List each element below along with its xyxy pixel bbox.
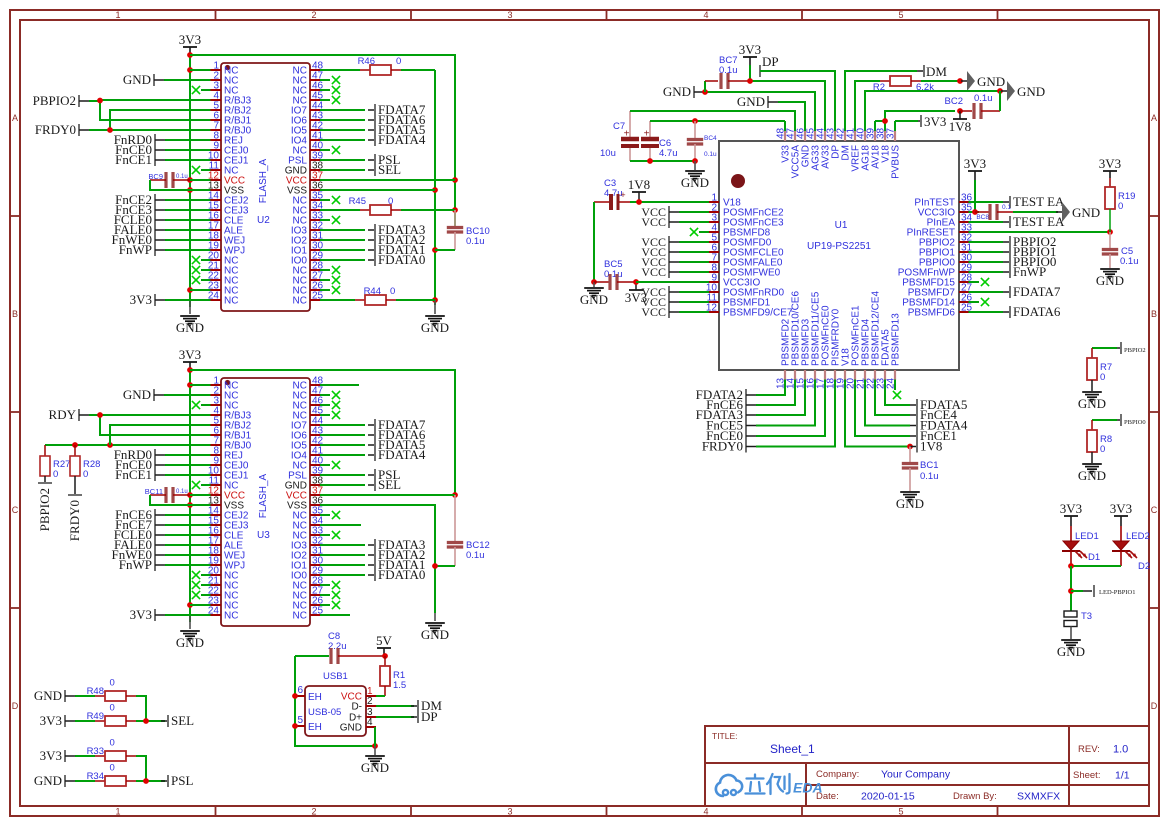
net label SEL at U2 pin38 bbox=[330, 162, 401, 177]
wire U3 pin36 VSS to ground bbox=[330, 505, 438, 613]
net label DP to U1 pin43 bbox=[760, 54, 835, 121]
svg-text:FRDY0: FRDY0 bbox=[35, 122, 76, 137]
svg-text:UP19-PS2251: UP19-PS2251 bbox=[807, 241, 871, 252]
svg-text:25: 25 bbox=[312, 291, 324, 302]
net label GND to U1 pin45 bbox=[663, 84, 815, 121]
svg-text:VCC: VCC bbox=[641, 215, 666, 229]
wire BC5 to U1 pin9 VCC3IO bbox=[636, 281, 699, 283]
svg-text:R45: R45 bbox=[349, 196, 366, 207]
svg-text:FnWP: FnWP bbox=[119, 557, 152, 572]
net label PBPIO2 at R7 bbox=[1092, 342, 1146, 354]
power 3V3 above BC7 bbox=[739, 42, 761, 81]
svg-text:0: 0 bbox=[396, 56, 401, 67]
net label PBPIO2 to U2 pins 4,6 bbox=[33, 93, 201, 120]
svg-text:GND: GND bbox=[34, 773, 62, 788]
wire 3V3 rail to U2 pin1 bbox=[190, 69, 201, 71]
net label FnWP to U3 pin19 bbox=[119, 557, 201, 572]
net label FDATA0 at U2 low byte bbox=[330, 252, 425, 267]
net label FnCE0 to U2 pin9 bbox=[115, 142, 201, 157]
wire U2 pin36 VSS to GND rail bbox=[330, 189, 435, 191]
svg-text:0.1: 0.1 bbox=[1002, 204, 1011, 211]
svg-text:U2: U2 bbox=[257, 215, 270, 226]
svg-text:D1: D1 bbox=[1088, 552, 1100, 563]
U1 no-connect X marks bbox=[690, 228, 989, 399]
ground below BC1 bbox=[896, 492, 924, 511]
net label FDATA1 at U3 low byte bbox=[330, 557, 425, 572]
svg-text:37: 37 bbox=[886, 127, 897, 139]
svg-text:GND: GND bbox=[737, 94, 765, 109]
net label PSL at U3 pin39 bbox=[330, 467, 400, 482]
svg-text:LED1: LED1 bbox=[1075, 531, 1099, 542]
svg-text:PBPIO0: PBPIO0 bbox=[1124, 419, 1146, 426]
svg-text:0.1u: 0.1u bbox=[176, 489, 188, 495]
ground arrow at pin40 net bbox=[1001, 81, 1045, 101]
svg-text:B: B bbox=[12, 309, 18, 319]
usb connector USB1 USB-05 body bbox=[305, 671, 366, 736]
capacitor BC11 0.1u at U3 VCC/VSS bbox=[145, 487, 201, 505]
svg-text:+: + bbox=[620, 190, 625, 200]
svg-text:FnWP: FnWP bbox=[119, 242, 152, 257]
net label RDY to U3 pins 4,6 bbox=[49, 407, 201, 435]
svg-text:1: 1 bbox=[115, 10, 120, 20]
svg-text:PBPIO2: PBPIO2 bbox=[33, 93, 76, 108]
wire U1 pin40 AG18 to ground arrow bbox=[865, 88, 1003, 121]
svg-text:LED-PBPIO1: LED-PBPIO1 bbox=[1099, 589, 1135, 596]
net label FDATA2 at U3 low byte bbox=[330, 547, 425, 562]
net label TEST EA at U1 pin36 bbox=[979, 194, 1065, 209]
net label GND to U1 pin46 bbox=[737, 94, 805, 121]
svg-text:NC: NC bbox=[224, 296, 238, 307]
resistor R19 0 bbox=[1105, 178, 1135, 232]
net label FDATA7 at U2 bbox=[330, 102, 426, 117]
net label FnCE0 to U3 pin9 bbox=[115, 457, 201, 472]
svg-text:0: 0 bbox=[1100, 372, 1105, 383]
svg-text:VCC: VCC bbox=[641, 305, 666, 319]
net label 3V3 at R49 bbox=[40, 713, 95, 728]
ground arrow at R2 bbox=[961, 71, 1005, 91]
svg-text:25: 25 bbox=[961, 303, 973, 314]
svg-text:4: 4 bbox=[703, 10, 708, 20]
net label SEL output bbox=[161, 713, 194, 728]
svg-text:4: 4 bbox=[367, 717, 373, 728]
svg-text:BC8: BC8 bbox=[976, 214, 989, 221]
svg-text:24: 24 bbox=[208, 291, 220, 302]
capacitor C6 4.7u bbox=[641, 121, 678, 161]
U2 right pins 25-48 bbox=[285, 61, 330, 307]
svg-text:1.5: 1.5 bbox=[393, 680, 406, 691]
svg-text:U1: U1 bbox=[835, 220, 848, 231]
svg-text:TEST EA: TEST EA bbox=[1013, 214, 1065, 229]
svg-text:3V3: 3V3 bbox=[179, 347, 201, 362]
svg-text:3V3: 3V3 bbox=[964, 156, 986, 171]
ground under BC4 bbox=[681, 161, 709, 190]
svg-text:GND: GND bbox=[340, 723, 362, 734]
svg-text:24: 24 bbox=[208, 606, 220, 617]
svg-text:D: D bbox=[1151, 701, 1158, 711]
net label FDATA0 at U3 low byte bbox=[330, 567, 425, 582]
net label PBPIO1 at U1 pin31 bbox=[979, 244, 1056, 259]
net label FRDY0 to U1 bottom pin bbox=[702, 390, 835, 454]
net label VCC to U1 pin8 bbox=[641, 265, 699, 279]
resistor R7 0 bbox=[1087, 348, 1112, 391]
net label GND to U2 pin2 bbox=[123, 72, 201, 87]
net label FDATA6 at U1 pin25 bbox=[979, 304, 1061, 319]
svg-text:PBPIO2: PBPIO2 bbox=[37, 488, 52, 531]
svg-text:C: C bbox=[12, 505, 19, 515]
capacitor BC8 0.1u at U1 pin35 bbox=[975, 204, 1058, 221]
svg-text:GND: GND bbox=[176, 635, 204, 650]
power 5V above R1 bbox=[376, 633, 393, 659]
svg-text:T3: T3 bbox=[1081, 611, 1092, 622]
svg-text:10u: 10u bbox=[600, 148, 616, 159]
svg-text:U3: U3 bbox=[257, 530, 270, 541]
flash chip U2 body bbox=[221, 63, 310, 311]
svg-text:Your Company: Your Company bbox=[881, 769, 951, 781]
net label FALE0 to U3 pin17 bbox=[114, 537, 201, 552]
ground right of U2 bbox=[421, 300, 449, 335]
svg-text:PVBUS: PVBUS bbox=[891, 145, 902, 179]
svg-text:5V: 5V bbox=[376, 633, 393, 648]
svg-text:VCC: VCC bbox=[641, 265, 666, 279]
svg-text:REV:: REV: bbox=[1078, 744, 1100, 755]
svg-text:DM: DM bbox=[926, 64, 947, 79]
net label FRDY0 to U2 pins 5,7 bbox=[35, 110, 201, 137]
net label FnCE6 to U1 bottom pin bbox=[706, 390, 795, 412]
svg-text:R46: R46 bbox=[358, 56, 375, 67]
svg-text:1: 1 bbox=[115, 807, 120, 817]
svg-text:5: 5 bbox=[898, 10, 903, 20]
U2 left pins 1-24 bbox=[201, 61, 252, 307]
net label DM at USB1 pin2 bbox=[376, 698, 442, 713]
net label FDATA4 at U3 bbox=[330, 447, 426, 462]
net label 3V3 to U3 pin24 bbox=[130, 607, 201, 622]
svg-text:1V8: 1V8 bbox=[920, 439, 942, 454]
capacitor C8 2.2u bbox=[295, 631, 385, 664]
svg-text:FLASH_A: FLASH_A bbox=[258, 473, 269, 518]
svg-text:+: + bbox=[644, 129, 650, 140]
svg-text:GND: GND bbox=[1078, 396, 1106, 411]
net label FnCE1 at U1 bottom right bbox=[855, 390, 957, 443]
net label FnWP at U1 pin29 bbox=[979, 264, 1046, 279]
power 3V3 at U1 pin35 bbox=[964, 156, 986, 215]
net label PBPIO2 at U1 pin32 bbox=[979, 234, 1056, 249]
net label FnWE0 to U2 pin18 bbox=[112, 232, 201, 247]
net label FDATA7 at U1 pin27 bbox=[979, 284, 1061, 299]
resistor R34 0 bbox=[87, 763, 165, 787]
svg-text:GND: GND bbox=[123, 72, 151, 87]
svg-text:FDATA6: FDATA6 bbox=[1013, 304, 1061, 319]
net label FnCE1 to U2 pin10 bbox=[115, 152, 201, 167]
svg-text:GND: GND bbox=[1078, 468, 1106, 483]
svg-text:TITLE:: TITLE: bbox=[712, 731, 738, 741]
svg-text:12: 12 bbox=[706, 303, 718, 314]
net label GND at R48 bbox=[34, 688, 95, 703]
net label VCC to U1 pin5 bbox=[641, 235, 699, 249]
svg-text:GND: GND bbox=[1096, 273, 1124, 288]
net label FDATA4 at U1 bottom right bbox=[865, 390, 968, 433]
svg-text:PSL: PSL bbox=[171, 773, 193, 788]
wire U3 pin25 stub bbox=[330, 614, 350, 616]
LED D2 LED2 with 3V3 bbox=[1110, 501, 1150, 572]
wire 3V3 top rail over U3 bbox=[190, 370, 458, 498]
resistor R46 0 at U2 pin48 bbox=[330, 56, 435, 75]
wire 3V3 to U1 pin44 AV33 bbox=[747, 78, 825, 121]
U1 top pins 48-37 bbox=[776, 121, 902, 179]
resistor R27 0 to PBPIO2 flag bbox=[37, 445, 70, 531]
svg-text:3V3: 3V3 bbox=[130, 607, 152, 622]
ground below C5 bbox=[1096, 269, 1124, 288]
svg-text:GND: GND bbox=[123, 387, 151, 402]
wire rail to U2 pin23 bbox=[190, 289, 201, 291]
net label FnRD0 to U3 pin8 bbox=[114, 447, 201, 462]
svg-text:PBPIO2: PBPIO2 bbox=[1124, 347, 1146, 354]
svg-text:D2: D2 bbox=[1138, 561, 1150, 572]
USB1 left pins 6,5 EH bbox=[293, 685, 322, 733]
svg-text:3: 3 bbox=[507, 10, 512, 20]
svg-text:6: 6 bbox=[297, 685, 303, 696]
svg-text:3V3: 3V3 bbox=[40, 748, 62, 763]
svg-text:4: 4 bbox=[703, 807, 708, 817]
capacitor BC1 0.1u bbox=[902, 447, 939, 492]
svg-text:GND: GND bbox=[1057, 644, 1085, 659]
svg-text:SEL: SEL bbox=[378, 162, 401, 177]
svg-text:GND: GND bbox=[896, 496, 924, 511]
svg-text:FDATA4: FDATA4 bbox=[378, 447, 426, 462]
net label FDATA6 at U2 bbox=[330, 112, 426, 127]
svg-text:5: 5 bbox=[297, 715, 303, 726]
svg-text:FRDY0: FRDY0 bbox=[67, 500, 82, 541]
svg-text:LED2: LED2 bbox=[1126, 531, 1150, 542]
svg-text:FDATA4: FDATA4 bbox=[378, 132, 426, 147]
svg-text:FnWP: FnWP bbox=[1013, 264, 1046, 279]
net label FDATA2 at U2 low byte bbox=[330, 232, 425, 247]
wire 3V3 rail left of U3 bbox=[187, 367, 193, 622]
svg-text:FDATA0: FDATA0 bbox=[378, 567, 425, 582]
power flag 1V8 below BC2 wire bbox=[949, 111, 971, 134]
svg-text:1.0: 1.0 bbox=[1113, 744, 1128, 756]
net label FnCE6 to U3 pin14 bbox=[115, 507, 201, 522]
wire U1 pin1 V18 to C3 bbox=[630, 199, 699, 205]
net label FDATA3 at U3 low byte bbox=[330, 537, 425, 552]
net label SEL at U3 pin38 bbox=[330, 477, 401, 492]
svg-text:D: D bbox=[12, 701, 19, 711]
net label 3V3 to U1 pin37 PVBUS bbox=[895, 114, 946, 129]
svg-text:3V3: 3V3 bbox=[1099, 156, 1121, 171]
ground arrow at BC8 bbox=[1056, 202, 1100, 222]
svg-text:0.1u: 0.1u bbox=[704, 151, 717, 158]
svg-text:0: 0 bbox=[1100, 444, 1105, 455]
svg-text:0: 0 bbox=[388, 196, 393, 207]
svg-text:A: A bbox=[1151, 113, 1157, 123]
U1 left pins 1-12 bbox=[699, 193, 793, 319]
resistor R1 1.5 bbox=[375, 656, 406, 696]
svg-text:GND: GND bbox=[34, 688, 62, 703]
svg-text:SEL: SEL bbox=[378, 477, 401, 492]
net label FnCE5 to U1 bottom pin bbox=[706, 390, 815, 433]
net label FDATA3 to U1 bottom pin bbox=[696, 390, 805, 422]
svg-text:4.7u: 4.7u bbox=[659, 148, 678, 159]
power 3V3 below BC5 bbox=[625, 279, 647, 305]
wire USB1 pin4 to ground bbox=[374, 727, 376, 746]
svg-text:FnCE1: FnCE1 bbox=[115, 152, 152, 167]
svg-text:2: 2 bbox=[311, 807, 316, 817]
net label FDATA3 at U2 low byte bbox=[330, 222, 425, 237]
net label PSL output bbox=[161, 773, 193, 788]
net label FnCE3 to U2 pin15 bbox=[115, 202, 201, 217]
svg-text:EDA: EDA bbox=[793, 780, 823, 796]
net label VCC to U1 pin11 bbox=[641, 295, 699, 309]
svg-text:GND: GND bbox=[977, 74, 1005, 89]
resistor R33 0 bbox=[87, 738, 146, 782]
net label FnRD0 to U2 pin8 bbox=[114, 132, 201, 147]
svg-text:TEST EA: TEST EA bbox=[1013, 194, 1065, 209]
net label VCC to U1 pin6 bbox=[641, 245, 699, 259]
svg-text:0.1u: 0.1u bbox=[974, 93, 993, 104]
net label FnCE2 to U2 pin14 bbox=[115, 192, 201, 207]
svg-text:C: C bbox=[1151, 505, 1158, 515]
power 3V3 top of U3 bbox=[179, 347, 201, 370]
svg-text:0.1u: 0.1u bbox=[1120, 256, 1139, 267]
net label FDATA2 to U1 bottom pin bbox=[696, 387, 785, 402]
fuse T3 bbox=[1064, 611, 1092, 639]
net label 3V3 to U2 pin24 bbox=[130, 292, 201, 307]
net label 3V3 at R33 bbox=[40, 748, 95, 763]
net label VCC to U1 pin10 bbox=[641, 285, 699, 299]
ground under U2 rail bbox=[176, 300, 204, 335]
net label FDATA5 at U2 bbox=[330, 122, 425, 137]
net label FDATA6 at U3 bbox=[330, 427, 426, 442]
net label FALE0 to U2 pin17 bbox=[114, 222, 201, 237]
net label FnWP to U2 pin19 bbox=[119, 242, 201, 257]
wire 3V3 top rail over U2 bbox=[190, 55, 458, 227]
svg-text:0.1u: 0.1u bbox=[176, 174, 188, 180]
resistor R8 0 bbox=[1087, 420, 1112, 463]
svg-text:3: 3 bbox=[507, 807, 512, 817]
svg-text:0: 0 bbox=[110, 738, 115, 749]
svg-text:R49: R49 bbox=[87, 711, 104, 722]
resistor R44 0 at U2 pin25 bbox=[330, 286, 435, 305]
svg-text:A: A bbox=[12, 113, 18, 123]
wire C6/BC4 to U1 pin48 V33 bbox=[650, 118, 785, 124]
U3 no-connect X marks bbox=[192, 391, 340, 609]
wire U3 pin34 stub bbox=[330, 524, 361, 526]
ground below BC12 bbox=[421, 613, 449, 642]
net label FDATA5 at U3 bbox=[330, 437, 425, 452]
capacitor BC7 0.1u bbox=[705, 55, 750, 92]
wire rail to U3 pin23 bbox=[190, 604, 201, 606]
net label GND at R34 bbox=[34, 773, 95, 788]
svg-text:0: 0 bbox=[110, 678, 115, 689]
wire U3 pin48 stub bbox=[330, 384, 359, 386]
svg-text:GND: GND bbox=[580, 292, 608, 307]
svg-text:3V3: 3V3 bbox=[1060, 501, 1082, 516]
resistor R28 0 to FRDY0 flag bbox=[67, 445, 100, 541]
net label FnCE4 at U1 bottom right bbox=[875, 390, 957, 422]
svg-text:USB-05: USB-05 bbox=[308, 707, 341, 718]
svg-text:5: 5 bbox=[898, 807, 903, 817]
U1 right pins 36-25 bbox=[898, 193, 979, 319]
title block bbox=[705, 726, 1149, 806]
wire 3V3 rail left of U2 bbox=[187, 52, 193, 307]
svg-text:FnCE1: FnCE1 bbox=[115, 467, 152, 482]
wire U3 pin37 VCC to rail bbox=[330, 494, 455, 496]
flash chip U3 body bbox=[221, 378, 310, 626]
net label DP at USB1 pin3 bbox=[376, 709, 438, 724]
wire GND vertical right of U2 bbox=[432, 70, 438, 305]
svg-text:Sheet:: Sheet: bbox=[1073, 770, 1100, 781]
svg-text:PBSMFD9/CE7: PBSMFD9/CE7 bbox=[723, 308, 793, 319]
wire U3 R/B net pins 5,7 bbox=[45, 425, 201, 448]
svg-text:25: 25 bbox=[312, 606, 324, 617]
capacitor BC12 0.1u bbox=[435, 495, 490, 566]
svg-text:Drawn By:: Drawn By: bbox=[953, 791, 997, 802]
svg-text:D-: D- bbox=[351, 702, 362, 713]
svg-text:0: 0 bbox=[110, 703, 115, 714]
svg-text:3V3: 3V3 bbox=[739, 42, 761, 57]
svg-text:R33: R33 bbox=[87, 746, 104, 757]
wire U2 pin37 VCC to 3V3 rail bbox=[330, 179, 455, 181]
net label PBPIO0 at R8 bbox=[1092, 414, 1146, 426]
svg-text:1V8: 1V8 bbox=[628, 177, 650, 192]
net label LED-PBPIO1 bbox=[1071, 585, 1135, 597]
svg-text:RDY: RDY bbox=[49, 407, 77, 422]
svg-text:0: 0 bbox=[83, 469, 88, 480]
svg-text:SEL: SEL bbox=[171, 713, 194, 728]
svg-text:NC: NC bbox=[293, 611, 307, 622]
svg-text:GND: GND bbox=[681, 175, 709, 190]
svg-text:GND: GND bbox=[1072, 205, 1100, 220]
ground below USB1 bbox=[361, 746, 389, 775]
resistor R2 6.2k from U1 pin41 VREF bbox=[855, 76, 963, 121]
resistor R48 0 bbox=[87, 678, 146, 722]
svg-text:GND: GND bbox=[1017, 84, 1045, 99]
svg-text:DP: DP bbox=[762, 54, 779, 69]
svg-text:+: + bbox=[624, 129, 630, 140]
svg-text:0: 0 bbox=[390, 286, 395, 297]
svg-text:NC: NC bbox=[293, 296, 307, 307]
power 3V3 above R19 bbox=[1099, 156, 1121, 178]
power flag 1V8 at U1 pin1 bbox=[628, 177, 650, 202]
wire C3 to ground bbox=[591, 202, 597, 285]
svg-text:R44: R44 bbox=[364, 286, 381, 297]
ground below R8 bbox=[1078, 464, 1106, 483]
net label GND to U3 pin2 bbox=[123, 387, 201, 402]
net label FnCE7 to U3 pin15 bbox=[115, 517, 201, 532]
net label VCC to U1 pin2 bbox=[641, 205, 699, 219]
svg-text:3V3: 3V3 bbox=[1110, 501, 1132, 516]
svg-text:NC: NC bbox=[224, 611, 238, 622]
svg-text:EH: EH bbox=[308, 722, 322, 733]
wire U1 pin33 PInRESET to R19/C5 node bbox=[979, 229, 1113, 235]
svg-text:3V3: 3V3 bbox=[40, 713, 62, 728]
svg-text:0.1u: 0.1u bbox=[920, 471, 939, 482]
svg-text:GND: GND bbox=[663, 84, 691, 99]
net label FnWE0 to U3 pin18 bbox=[112, 547, 201, 562]
net label PSL at U2 pin39 bbox=[330, 152, 400, 167]
net label FDATA4 at U2 bbox=[330, 132, 426, 147]
svg-text:R48: R48 bbox=[87, 686, 104, 697]
wire ground bus under C7 C6 BC4 bbox=[630, 158, 698, 164]
svg-text:PBSMFD13: PBSMFD13 bbox=[891, 313, 902, 366]
svg-text:GND: GND bbox=[361, 760, 389, 775]
svg-text:3V3: 3V3 bbox=[924, 114, 946, 129]
svg-text:USB1: USB1 bbox=[323, 671, 348, 682]
net label DM to U1 pin42 bbox=[845, 64, 947, 121]
net label FDATA7 at U3 bbox=[330, 417, 426, 432]
svg-text:0.1u: 0.1u bbox=[466, 550, 485, 561]
capacitor C7 10u bbox=[600, 111, 639, 161]
U3 left pins 1-24 bbox=[201, 376, 252, 622]
